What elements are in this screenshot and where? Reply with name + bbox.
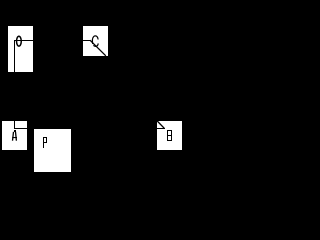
white rectangle box 5 (bottom-right, labeled B, folded corner): [157, 121, 182, 150]
corner panel divider vertical line in box 3: [14, 121, 15, 128]
gesture stroke horizontal line in box 2: [83, 40, 90, 41]
letter A: [12, 130, 17, 141]
gesture stroke vertical line in box 1: [14, 40, 15, 72]
gesture loop (delete curl) in box 1: [17, 36, 22, 46]
folded-corner horizontal line on box 5: [157, 128, 165, 129]
white rectangle box 4 (bottom-middle, labeled P): [34, 129, 71, 172]
gesture loop (curl with gap) in box 2: [92, 36, 98, 44]
white rectangle box 3 (bottom-left, labeled A): [2, 121, 27, 150]
letter B: [167, 130, 172, 141]
white rectangle box 2 (top-middle): [83, 26, 108, 56]
folded-corner diagonal line on box 5: [157, 121, 164, 128]
gesture stroke horizontal line in box 1: [14, 40, 33, 41]
white rectangle box 1 (top-left): [8, 26, 33, 72]
letter P: [43, 137, 47, 148]
gesture stroke diagonal line in box 2: [90, 40, 106, 56]
corner panel divider horizontal line in box 3: [14, 128, 27, 129]
